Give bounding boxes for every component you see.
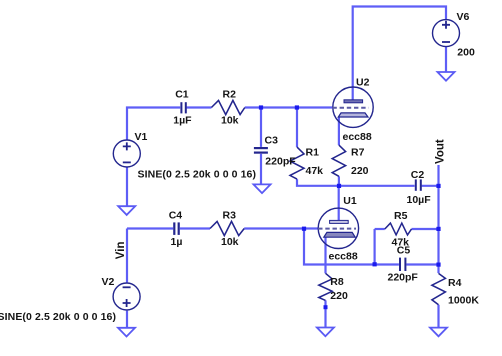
- svg-text:1µF: 1µF: [173, 114, 192, 126]
- svg-text:U1: U1: [343, 195, 357, 207]
- svg-text:1000K: 1000K: [448, 294, 479, 306]
- svg-text:R1: R1: [306, 147, 320, 159]
- svg-text:220pF: 220pF: [388, 271, 419, 283]
- svg-text:SINE(0 2.5 20k 0 0 0 16): SINE(0 2.5 20k 0 0 0 16): [138, 168, 257, 180]
- svg-text:C2: C2: [411, 169, 425, 181]
- svg-text:Vin: Vin: [115, 242, 127, 260]
- svg-text:1µ: 1µ: [171, 236, 183, 248]
- svg-text:U2: U2: [356, 76, 370, 88]
- svg-text:47k: 47k: [306, 165, 324, 177]
- svg-text:C4: C4: [169, 209, 183, 221]
- svg-text:10k: 10k: [221, 115, 239, 127]
- svg-text:220: 220: [351, 165, 369, 177]
- svg-text:V6: V6: [457, 11, 470, 23]
- svg-text:R4: R4: [448, 277, 462, 289]
- svg-text:R3: R3: [223, 210, 237, 222]
- svg-text:V2: V2: [102, 276, 115, 288]
- svg-text:Vout: Vout: [434, 139, 446, 164]
- svg-text:220: 220: [330, 290, 348, 302]
- svg-text:200: 200: [457, 46, 475, 58]
- svg-text:ecc88: ecc88: [329, 251, 358, 263]
- svg-text:ecc88: ecc88: [343, 131, 372, 143]
- svg-text:10µF: 10µF: [407, 194, 432, 206]
- svg-text:V1: V1: [135, 131, 148, 143]
- svg-text:R2: R2: [223, 89, 237, 101]
- svg-text:R7: R7: [351, 147, 365, 159]
- svg-text:R5: R5: [394, 210, 408, 222]
- svg-text:R8: R8: [330, 276, 344, 288]
- svg-text:10k: 10k: [221, 236, 239, 248]
- svg-text:C1: C1: [175, 89, 189, 101]
- svg-text:C3: C3: [265, 135, 279, 147]
- svg-text:220pF: 220pF: [265, 155, 296, 167]
- svg-text:SINE(0 2.5 20k 0 0 0 16): SINE(0 2.5 20k 0 0 0 16): [0, 311, 116, 323]
- svg-text:C5: C5: [397, 245, 411, 257]
